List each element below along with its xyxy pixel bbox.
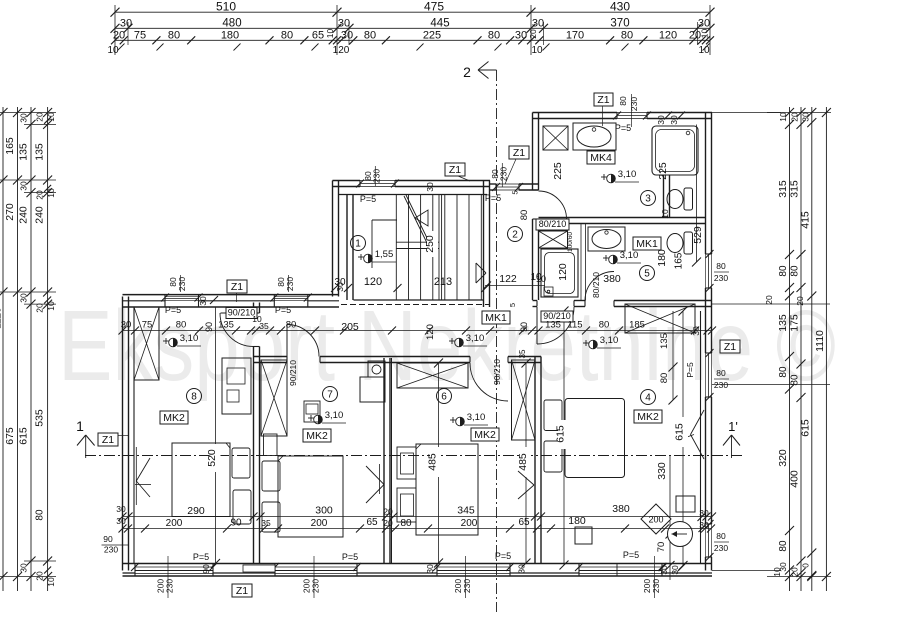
svg-text:485: 485: [517, 453, 529, 471]
svg-text:120: 120: [333, 45, 350, 56]
toilet partition room 3: [663, 175, 665, 218]
svg-text:135: 135: [218, 320, 234, 331]
bed room 7: [278, 456, 343, 537]
svg-text:90/210: 90/210: [492, 359, 502, 385]
wardrobe room 7: [261, 360, 287, 436]
svg-text:90: 90: [103, 534, 113, 544]
svg-text:6: 6: [441, 392, 447, 403]
wardrobe rooms 6-4 wall: [512, 360, 536, 440]
svg-text:3,10: 3,10: [600, 335, 619, 346]
stair treads left flight: [395, 195, 397, 301]
svg-text:230: 230: [714, 380, 728, 390]
svg-text:200: 200: [648, 515, 663, 525]
svg-text:30: 30: [121, 320, 132, 331]
svg-text:MK1: MK1: [636, 238, 658, 250]
svg-text:80: 80: [659, 373, 670, 384]
bed room 6: [416, 444, 478, 535]
svg-text:30: 30: [116, 516, 126, 526]
svg-text:3,10: 3,10: [467, 412, 486, 423]
svg-text:120: 120: [557, 263, 569, 281]
svg-text:230: 230: [165, 579, 175, 593]
room 4 dim line 330 70: [669, 456, 671, 581]
svg-text:529: 529: [692, 226, 704, 244]
svg-text:80/210: 80/210: [591, 272, 601, 298]
svg-text:Z1: Z1: [724, 341, 736, 353]
dresser room 8: [222, 358, 251, 414]
svg-text:P=5: P=5: [193, 552, 209, 562]
svg-text:80: 80: [176, 320, 187, 331]
top dimension chain row 3 (detail): [115, 39, 710, 41]
svg-text:135: 135: [545, 320, 561, 331]
label MK2 room 6: [471, 428, 499, 441]
svg-text:213: 213: [434, 276, 452, 288]
svg-text:30: 30: [338, 18, 350, 30]
svg-text:3: 3: [645, 194, 651, 205]
svg-text:30: 30: [425, 564, 435, 574]
svg-text:80: 80: [778, 265, 789, 277]
svg-text:30: 30: [116, 504, 126, 514]
bathroom interior wall 3-5: [539, 217, 707, 219]
label MK2 room 4: [634, 410, 662, 423]
svg-text:90/210: 90/210: [228, 308, 256, 318]
svg-text:10: 10: [46, 188, 56, 198]
door 90/210 room 8 leaf and arc: [221, 312, 254, 314]
label MK4: [587, 151, 615, 164]
svg-text:90: 90: [204, 322, 214, 332]
svg-text:5: 5: [644, 269, 650, 280]
svg-text:230: 230: [651, 579, 661, 593]
svg-text:30: 30: [656, 115, 666, 125]
svg-text:230: 230: [499, 167, 509, 181]
svg-text:Z1: Z1: [449, 164, 461, 176]
svg-text:20: 20: [35, 112, 45, 122]
stairwell window label Z1 with leader: [445, 163, 465, 176]
svg-text:290: 290: [187, 505, 205, 517]
svg-text:2: 2: [512, 230, 518, 241]
svg-text:80: 80: [778, 366, 789, 378]
niche in bottom wall: [243, 565, 275, 572]
svg-text:120: 120: [659, 29, 677, 41]
svg-text:P=5: P=5: [495, 551, 511, 561]
svg-text:230: 230: [104, 545, 118, 555]
door 90/210 room 7 leaf and arc: [286, 325, 288, 357]
room number 4 circled: [641, 390, 656, 405]
svg-text:80: 80: [716, 261, 726, 271]
room 7 level 3,10: [308, 417, 314, 419]
room number 5 circled: [640, 266, 655, 281]
svg-text:230: 230: [714, 543, 728, 553]
svg-text:10: 10: [530, 272, 542, 283]
svg-text:MK2: MK2: [163, 412, 185, 424]
svg-text:445: 445: [430, 18, 449, 30]
section line 2-2 vertical: [496, 70, 498, 612]
right wall inner face line: [700, 311, 702, 564]
svg-text:1: 1: [76, 418, 84, 434]
stair landing lines: [396, 241, 439, 243]
svg-text:615: 615: [555, 425, 567, 443]
svg-text:240: 240: [34, 206, 46, 224]
outer wall bottom with four windows: [123, 563, 713, 565]
room 8 level 3,10: [163, 340, 169, 342]
top dimension chain row 1 (510/475/430): [115, 11, 710, 13]
corridor top wall with window Z1: [490, 183, 497, 185]
svg-text:65: 65: [312, 29, 324, 41]
top dimension chain row 2 (30/480/30/445/30/370/30): [115, 27, 710, 29]
svg-text:330: 330: [656, 462, 668, 480]
svg-text:1: 1: [355, 239, 361, 250]
svg-text:8: 8: [191, 392, 197, 403]
svg-text:20: 20: [790, 567, 800, 577]
svg-text:230: 230: [177, 277, 187, 291]
svg-text:120: 120: [425, 324, 436, 340]
svg-text:80: 80: [618, 96, 628, 106]
interior wall rooms 6-4: [534, 357, 536, 564]
svg-text:10: 10: [772, 567, 782, 577]
svg-text:120: 120: [364, 276, 382, 288]
svg-text:3,10: 3,10: [325, 410, 344, 421]
wardrobe room 6 top: [397, 363, 468, 388]
svg-text:225: 225: [657, 162, 669, 180]
bathroom block west wall: [532, 113, 534, 191]
svg-text:615: 615: [799, 419, 811, 437]
svg-text:30: 30: [120, 18, 132, 30]
dim line 529: [696, 125, 698, 263]
bottom interior chain room widths y519: [123, 516, 713, 518]
svg-text:MK2: MK2: [474, 429, 496, 441]
svg-text:90: 90: [230, 518, 242, 529]
label Z1 top wall: [227, 280, 247, 293]
room 6 vertical dim 485: [438, 363, 440, 563]
svg-text:4: 4: [645, 393, 651, 404]
svg-text:175: 175: [789, 314, 801, 332]
svg-text:30: 30: [515, 29, 527, 41]
svg-text:3,10: 3,10: [466, 333, 485, 344]
wardrobe bath 3: [543, 126, 568, 150]
svg-text:615: 615: [18, 427, 30, 445]
wardrobe niche bath 5: [539, 231, 568, 248]
section line 1-1 horizontal: [85, 455, 745, 457]
svg-text:90: 90: [201, 564, 211, 574]
svg-text:80: 80: [621, 29, 633, 41]
svg-text:165: 165: [4, 137, 16, 155]
svg-text:30: 30: [198, 296, 208, 306]
svg-text:30: 30: [532, 18, 544, 30]
svg-text:MK4: MK4: [590, 152, 612, 164]
svg-text:Z1: Z1: [513, 147, 525, 159]
shower partition: [580, 224, 582, 301]
svg-text:10: 10: [46, 301, 56, 311]
stair hall level 1,55: [358, 256, 364, 258]
svg-text:80: 80: [400, 518, 412, 529]
svg-text:170: 170: [566, 29, 584, 41]
svg-text:230: 230: [462, 579, 472, 593]
toilet room 3: [684, 188, 693, 210]
svg-text:30: 30: [669, 115, 679, 125]
room number 6 circled: [437, 389, 452, 404]
nightstand room 7: [264, 434, 278, 456]
svg-text:380: 380: [603, 273, 621, 285]
svg-text:225: 225: [552, 162, 564, 180]
stairwell east wall: [483, 181, 485, 308]
room 4 vertical dim 615: [682, 311, 684, 566]
svg-text:5: 5: [508, 303, 517, 307]
svg-text:65: 65: [366, 517, 378, 528]
shower dim 120 rotated: [560, 261, 571, 283]
svg-text:75: 75: [142, 320, 153, 331]
svg-text:165: 165: [674, 252, 685, 269]
washbasin MK1: [588, 227, 625, 251]
svg-text:30: 30: [698, 18, 710, 30]
svg-text:300: 300: [315, 505, 333, 517]
svg-text:P=5: P=5: [342, 552, 358, 562]
label MK2 room 7: [303, 429, 331, 442]
svg-text:10: 10: [778, 112, 788, 122]
svg-text:20: 20: [35, 190, 45, 200]
svg-text:3,10: 3,10: [618, 169, 637, 180]
bottom interior chain detail y528: [123, 528, 712, 530]
svg-text:20: 20: [528, 29, 538, 39]
svg-text:200: 200: [311, 518, 328, 529]
svg-text:20: 20: [795, 296, 805, 306]
room number 7 circled: [323, 387, 338, 402]
svg-text:P=5: P=5: [360, 194, 376, 204]
svg-text:80: 80: [286, 320, 297, 331]
svg-text:30: 30: [335, 282, 345, 292]
svg-text:80: 80: [716, 531, 726, 541]
stair flight divider: [438, 195, 440, 301]
svg-text:80: 80: [281, 29, 293, 41]
svg-text:80: 80: [364, 29, 376, 41]
stairwell top wall with window Z1: [333, 180, 361, 182]
svg-text:30: 30: [341, 29, 353, 41]
stair hall number 1: [351, 236, 366, 251]
bath top window label Z1: [594, 93, 613, 106]
room 8 dim 520: [215, 307, 217, 564]
left wall inner face line: [133, 307, 135, 564]
room 4 level 3,10: [583, 342, 589, 344]
label MK1 bath: [633, 237, 661, 250]
svg-text:0: 0: [800, 563, 810, 568]
right extension lines: [712, 303, 830, 305]
svg-text:7: 7: [327, 390, 333, 401]
svg-text:135: 135: [18, 143, 30, 161]
svg-text:Z1: Z1: [236, 585, 248, 597]
stair treads right flight: [444, 195, 446, 301]
svg-text:230: 230: [311, 579, 321, 593]
svg-text:80: 80: [778, 540, 789, 552]
desk room 7: [368, 361, 385, 377]
stair hall landing edge: [372, 219, 397, 221]
svg-text:1': 1': [728, 419, 738, 434]
bath 5 level 3,10: [603, 257, 609, 259]
svg-text:MK2: MK2: [306, 430, 328, 442]
svg-text:430: 430: [610, 0, 630, 14]
pillows room 7: [262, 461, 280, 491]
svg-text:615: 615: [674, 423, 686, 441]
door 90/210 room 4: [536, 307, 538, 344]
svg-text:10: 10: [46, 577, 56, 587]
svg-text:90/210: 90/210: [288, 360, 298, 386]
svg-text:230: 230: [372, 169, 382, 183]
svg-text:230: 230: [714, 273, 728, 283]
washbasin MK4: [573, 123, 616, 150]
interior dimension chain y330: [123, 330, 712, 332]
svg-text:30: 30: [19, 113, 29, 123]
outer wall right (east): [705, 113, 707, 255]
svg-text:10: 10: [325, 29, 335, 39]
room 4 dim 615 at bed: [563, 311, 565, 565]
svg-text:2: 2: [463, 64, 471, 80]
hall level 3,10: [449, 340, 455, 342]
svg-text:135: 135: [659, 333, 670, 349]
stair label 250: [427, 231, 438, 257]
svg-text:Z1: Z1: [231, 281, 243, 293]
svg-text:345: 345: [457, 505, 475, 517]
svg-text:MK1: MK1: [485, 312, 507, 324]
window label Z1 right wall: [720, 340, 740, 353]
bathtub room 3: [652, 126, 698, 175]
position diamond 200: [641, 504, 671, 534]
svg-text:P=5: P=5: [685, 362, 695, 378]
svg-text:30: 30: [19, 293, 29, 303]
right wall window glyph: [691, 410, 705, 435]
hall south wall / rooms 7 and 6 top wall: [254, 356, 288, 358]
door 80/210 bath 5: [585, 272, 614, 301]
svg-text:180: 180: [221, 29, 239, 41]
svg-text:80/210: 80/210: [539, 219, 567, 229]
pillows room 4: [544, 400, 562, 431]
pillows room 8: [232, 448, 250, 478]
svg-text:1110: 1110: [814, 330, 826, 352]
svg-text:10: 10: [660, 209, 670, 219]
dashed line under stairwell: [341, 304, 489, 306]
svg-text:20: 20: [35, 571, 45, 581]
room 4 vertical dims 135 80: [672, 311, 674, 400]
room 6 level 3,10: [450, 419, 456, 421]
position circle 1: [668, 522, 693, 547]
svg-text:80: 80: [488, 29, 500, 41]
bathroom block top wall with window Z1: [533, 112, 618, 114]
svg-text:90: 90: [519, 322, 529, 332]
svg-text:185: 185: [629, 320, 645, 331]
section glyph wall 6-4: [518, 471, 534, 485]
svg-text:10: 10: [698, 45, 710, 56]
svg-text:P=5: P=5: [615, 123, 631, 133]
svg-text:35: 35: [261, 518, 271, 528]
svg-text:20: 20: [764, 295, 774, 305]
svg-text:200: 200: [166, 518, 183, 529]
svg-text:35: 35: [259, 321, 269, 331]
svg-text:30: 30: [19, 181, 29, 191]
corridor dim 122 and 10: [485, 285, 545, 287]
svg-text:240: 240: [18, 206, 30, 224]
window label Z1 left of section 1: [98, 433, 118, 446]
svg-text:3,10: 3,10: [620, 250, 639, 261]
svg-text:80: 80: [35, 509, 46, 521]
svg-text:10: 10: [46, 112, 56, 122]
room 6-4 vertical dim 485: [525, 363, 527, 563]
svg-text:65: 65: [518, 517, 530, 528]
left dimension chains: [2, 107, 4, 591]
label MK2 room 8: [160, 411, 188, 424]
svg-text:10: 10: [531, 45, 543, 56]
svg-text:135: 135: [777, 314, 789, 332]
svg-text:30: 30: [425, 182, 435, 192]
stair walk line with arrow: [404, 196, 427, 243]
svg-text:P=5: P=5: [485, 193, 501, 203]
svg-text:510: 510: [216, 0, 236, 14]
svg-text:485: 485: [427, 453, 439, 471]
svg-text:20: 20: [790, 112, 800, 122]
svg-text:20: 20: [35, 303, 45, 313]
svg-text:30: 30: [800, 112, 810, 122]
svg-text:80: 80: [168, 29, 180, 41]
chair room 7: [304, 401, 320, 422]
shaft box room 4: [676, 496, 695, 512]
shower room 5: [541, 249, 578, 297]
svg-text:415: 415: [799, 211, 811, 229]
svg-text:80: 80: [790, 265, 801, 277]
stairwell inner west wall: [346, 195, 348, 301]
svg-text:250: 250: [424, 235, 436, 253]
stool room 4: [575, 527, 592, 544]
right dimension chains: [789, 107, 791, 591]
room 3 level 3,10: [601, 176, 607, 178]
svg-text:675: 675: [4, 427, 16, 445]
svg-text:315: 315: [777, 180, 789, 198]
svg-text:80: 80: [790, 374, 801, 386]
wardrobe room 8: [134, 307, 159, 380]
svg-text:475: 475: [424, 0, 444, 14]
Z1 leader top wall: [236, 293, 238, 302]
svg-text:70: 70: [656, 542, 667, 553]
svg-text:320: 320: [777, 449, 789, 467]
svg-text:75: 75: [134, 29, 146, 41]
svg-text:20: 20: [383, 507, 393, 517]
section glyph wall 7-6: [366, 466, 384, 485]
bed room 4: [565, 399, 625, 478]
svg-text:5: 5: [511, 190, 520, 194]
svg-text:225: 225: [423, 29, 441, 41]
svg-text:200: 200: [461, 518, 478, 529]
left wall window glyph: [135, 447, 137, 505]
label MK1 hall: [482, 311, 510, 324]
wardrobe room 4 top: [625, 304, 695, 333]
top dimension extension lines: [114, 5, 116, 55]
svg-text:230: 230: [629, 97, 639, 111]
corridor window label Z1: [509, 146, 529, 159]
svg-text:380: 380: [612, 503, 630, 515]
window W4 mullion: [616, 564, 618, 577]
svg-text:480: 480: [222, 18, 241, 30]
svg-text:10: 10: [107, 45, 119, 56]
svg-text:P=5: P=5: [275, 305, 291, 315]
svg-text:400: 400: [789, 470, 801, 488]
svg-text:80: 80: [716, 368, 726, 378]
svg-text:520: 520: [206, 449, 218, 467]
label Z1 bottom: [232, 584, 252, 597]
bed room 8: [172, 443, 230, 517]
svg-text:30: 30: [517, 564, 527, 574]
svg-text:180: 180: [656, 249, 668, 267]
svg-text:80: 80: [599, 320, 610, 331]
room number 3 circled: [641, 191, 656, 206]
svg-text:270: 270: [4, 203, 16, 221]
door 80/210 from corridor to bath 3: [539, 191, 567, 219]
svg-text:35: 35: [518, 349, 527, 358]
room number 8 circled: [187, 389, 202, 404]
svg-text:1110: 1110: [0, 307, 4, 329]
